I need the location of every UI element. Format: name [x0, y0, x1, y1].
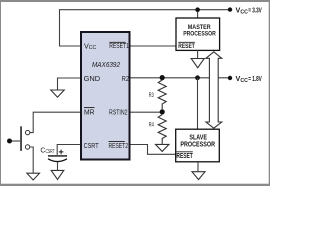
processor U3 slave — [176, 129, 220, 162]
svg-text:RESET: RESET — [176, 153, 193, 160]
node VCC=3.3V terminal — [228, 7, 232, 11]
svg-text:RSTIN2: RSTIN2 — [109, 109, 128, 116]
node VCC=1.8V terminal — [228, 76, 232, 80]
wire top rail from VCC pin to VCC=3.3V terminal — [60, 10, 231, 46]
wire RSTIN2 to divider midpoint — [130, 111, 162, 113]
wire 3.3V drop to master top — [197, 10, 199, 18]
svg-text:CCSRT: CCSRT — [40, 148, 54, 156]
ground (GND pin) — [51, 90, 64, 97]
svg-text:RESET: RESET — [178, 43, 195, 50]
node rail to R3 — [160, 75, 165, 80]
resistor R3 — [158, 80, 166, 109]
ground (capacitor) — [51, 170, 64, 179]
wire switch to ground — [30, 147, 33, 173]
svg-text:R2: R2 — [122, 76, 129, 83]
ground (R4) — [156, 144, 169, 151]
bidirectional bus arrow between master and slave — [206, 52, 222, 128]
svg-text:GND: GND — [84, 74, 101, 83]
node R3/R4 midpoint — [160, 109, 165, 114]
svg-text:MR: MR — [84, 108, 95, 117]
ground (master) — [191, 59, 204, 68]
svg-text:CC: CC — [240, 78, 248, 84]
svg-text:PROCESSOR: PROCESSOR — [180, 139, 215, 148]
svg-text:CC: CC — [240, 10, 248, 16]
wire VCC=1.8V rail from R2 pin — [130, 77, 230, 79]
svg-text:= 3.3V: = 3.3V — [248, 7, 262, 14]
node rail to slave supply — [195, 75, 200, 80]
processor U2 master — [176, 18, 220, 50]
switch SW (manual reset pushbutton) — [25, 130, 29, 134]
svg-text:= 1.8V: = 1.8V — [248, 76, 262, 83]
op IC MAX6392 U1 — [81, 32, 130, 160]
wire RESET1 to master processor — [130, 45, 176, 47]
wire 1.8V rail down to slave top — [197, 78, 199, 129]
wire MR to switch — [30, 112, 81, 132]
svg-text:MAX6392: MAX6392 — [92, 62, 120, 69]
capacitor CCSRT (polarized) — [48, 155, 67, 157]
wire master to ground — [197, 50, 199, 58]
wire slave to ground — [197, 162, 199, 172]
svg-text:RESET1: RESET1 — [109, 43, 129, 50]
svg-text:RESET2: RESET2 — [109, 143, 129, 150]
svg-text:R4: R4 — [149, 122, 154, 129]
node junction on top rail — [195, 7, 200, 12]
wire GND to ground — [58, 78, 82, 90]
resistor R4 — [158, 115, 166, 144]
ground (switch) — [27, 173, 40, 180]
border frame — [0, 0, 270, 2]
svg-text:PROCESSOR: PROCESSOR — [183, 31, 216, 38]
svg-text:R3: R3 — [149, 92, 154, 99]
wire CSRT to capacitor — [57, 145, 81, 155]
ground (slave) — [192, 172, 205, 180]
wire RESET2 to slave reset — [130, 145, 176, 155]
svg-text:CSRT: CSRT — [84, 141, 99, 150]
